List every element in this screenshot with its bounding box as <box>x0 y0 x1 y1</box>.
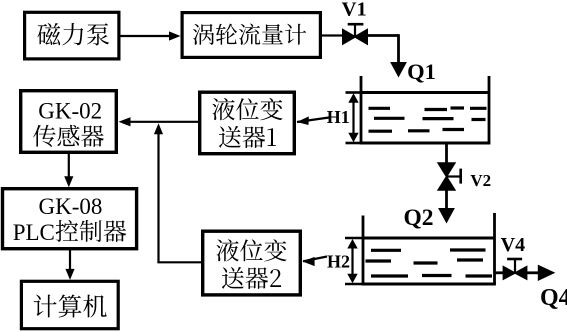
pipe valve V1 to tank1 (down) <box>368 34 399 64</box>
valve V4 <box>503 259 528 280</box>
svg-text:GK-02: GK-02 <box>38 99 102 124</box>
svg-text:Q4: Q4 <box>540 285 567 311</box>
label Q1 <box>407 59 436 84</box>
label Q2 <box>403 205 433 231</box>
pipe tank1 outlet down <box>445 143 448 165</box>
tank T2 water dashes <box>366 250 493 276</box>
svg-text:V1: V1 <box>342 0 367 21</box>
box GK-08 PLC控制器 (PLC controller) <box>3 189 137 249</box>
tank T1 right wall <box>488 76 491 143</box>
svg-text:Q2: Q2 <box>403 205 433 231</box>
wire pump to flowmeter <box>120 31 181 40</box>
svg-text:PLC: PLC <box>13 220 55 245</box>
box GK-02 传感器 (sensor) <box>21 91 117 153</box>
wire transmitter2 to riser <box>157 261 202 263</box>
svg-text:GK-08: GK-08 <box>39 194 103 219</box>
wire PLC to computer (arrow down) <box>65 250 74 280</box>
label V4 <box>501 234 525 256</box>
wire flowmeter to valve V1 <box>320 34 343 36</box>
svg-text:V2: V2 <box>470 171 491 190</box>
tank T2 bottom <box>362 283 496 286</box>
pipe V2 down to tank2 <box>445 190 448 209</box>
tank T2 water surface <box>363 237 495 240</box>
tank T1 water surface <box>361 91 489 94</box>
label H2 <box>327 252 350 272</box>
valve V1 <box>342 24 368 45</box>
level measure H1 double arrow <box>348 93 358 142</box>
tank T2 left wall <box>362 216 365 285</box>
tank T1 bottom tick (left extension) <box>346 142 362 145</box>
tank T1 left wall <box>360 76 363 143</box>
label Q4 <box>540 285 567 311</box>
wire GK-02 to PLC (arrow down) <box>64 153 73 187</box>
label V2 <box>470 171 491 190</box>
flow arrow Q1 into tank1 <box>390 62 407 78</box>
tank T2 right wall <box>493 213 496 284</box>
tank T2 surface tick (left extension) <box>345 237 363 240</box>
wire H1 to transmitter1 (arrow) <box>297 116 329 125</box>
wire H2 to transmitter2 (arrow) <box>303 257 327 267</box>
flow arrow Q4 out <box>527 265 555 281</box>
svg-text:H2: H2 <box>327 252 350 272</box>
tank T2 bottom tick (left extension) <box>345 283 363 286</box>
box 涡轮流量计 (turbine flowmeter) <box>182 13 320 58</box>
box 计算机 (computer) <box>21 281 118 328</box>
label V1 <box>342 0 367 21</box>
box 液位变送器1 (level transmitter 1) <box>200 92 295 154</box>
svg-text:H1: H1 <box>327 107 350 127</box>
tank T1 surface tick (left extension) <box>346 91 362 94</box>
label H1 <box>327 107 350 127</box>
wire transmitter2 riser to junction (arrow up) <box>154 123 163 262</box>
tank T1 water dashes <box>369 108 487 131</box>
level measure H2 double arrow <box>347 239 357 283</box>
svg-text:Q1: Q1 <box>407 59 436 84</box>
svg-text:V4: V4 <box>501 234 525 256</box>
valve V2 <box>437 162 461 191</box>
flow arrow Q2 into tank2 <box>438 208 455 224</box>
wire transmitter1 to GK-02 sensor (arrow) <box>119 117 199 126</box>
pipe tank2 outlet right <box>495 271 505 274</box>
box 磁力泵 (pump) <box>25 12 119 59</box>
tank T1 bottom <box>360 142 491 145</box>
box 液位变送器2 (level transmitter 2) <box>203 231 301 295</box>
